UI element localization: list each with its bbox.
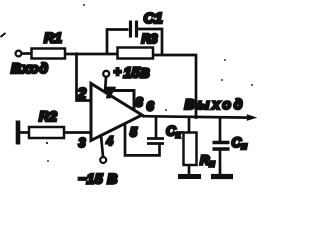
svg-text:5: 5 — [130, 126, 138, 140]
chassis bar at R2 input — [16, 121, 21, 145]
svg-text:R3: R3 — [142, 32, 158, 46]
wire R1 to R3 (inverting node) — [65, 53, 118, 56]
wire Ck top plate to output wire — [155, 117, 158, 139]
resistor R2 — [29, 127, 64, 138]
svg-text:2: 2 — [77, 86, 87, 103]
resistor R1 — [32, 49, 66, 59]
wire pin7 to pin8 bar — [106, 91, 134, 110]
+15V terminal circle — [103, 71, 109, 77]
scan noise dots — [46, 142, 48, 144]
capacitor Ck — [147, 137, 164, 140]
ground under Rn — [178, 174, 201, 179]
svg-text:R2: R2 — [39, 108, 57, 124]
wire node A down to pin 2 — [77, 54, 91, 101]
resistor R3 — [118, 48, 154, 59]
svg-text:С1: С1 — [144, 10, 163, 27]
wire Cn branch — [219, 117, 222, 141]
node A junction — [75, 52, 79, 56]
capacitor Cn — [213, 141, 230, 144]
wire pin 5 down-right to Ck bottom — [125, 123, 160, 155]
svg-text:Rн: Rн — [200, 153, 215, 169]
wire pin 7 stem — [105, 77, 106, 93]
svg-text:Ск: Ск — [166, 124, 182, 141]
wire Cn to ground — [219, 151, 222, 176]
wire R2 to pin 3 — [64, 131, 91, 134]
ground under Cn — [211, 174, 233, 179]
svg-text:3: 3 — [79, 136, 86, 150]
op-amp U1 triangle — [91, 84, 142, 141]
svg-text:R1: R1 — [44, 30, 62, 46]
stray scan mark top-left — [1, 33, 6, 37]
svg-text:Сн: Сн — [232, 135, 248, 152]
wire chassis to R2 — [19, 131, 29, 134]
wire C1 right lead down to R3 output side — [138, 29, 162, 55]
capacitor C1 — [129, 21, 132, 38]
output arrowhead — [247, 114, 257, 121]
svg-text:8: 8 — [136, 95, 144, 110]
junction output/feedback — [194, 115, 198, 119]
resistor Rn (vertical) — [184, 133, 197, 166]
wire riser to C1 left — [107, 30, 129, 56]
input terminal circle — [16, 51, 22, 57]
svg-text:−15 В: −15 В — [78, 171, 118, 187]
wire Rn branch — [188, 117, 191, 133]
wire R3 to output node — [153, 55, 196, 116]
svg-text:+: + — [114, 64, 122, 79]
svg-text:Вход: Вход — [11, 60, 49, 76]
wire pin 4 stem — [101, 136, 103, 157]
svg-text:7: 7 — [107, 85, 115, 100]
svg-text:4: 4 — [106, 136, 114, 148]
wire Rn to ground — [188, 165, 191, 176]
svg-text:В: В — [141, 67, 150, 81]
-15V terminal circle — [100, 157, 106, 163]
wire input to R1 — [22, 52, 32, 55]
output wire with arrow — [142, 116, 250, 117]
svg-text:6: 6 — [147, 99, 155, 114]
svg-text:Выход: Выход — [185, 96, 246, 112]
svg-text:15: 15 — [124, 66, 141, 82]
